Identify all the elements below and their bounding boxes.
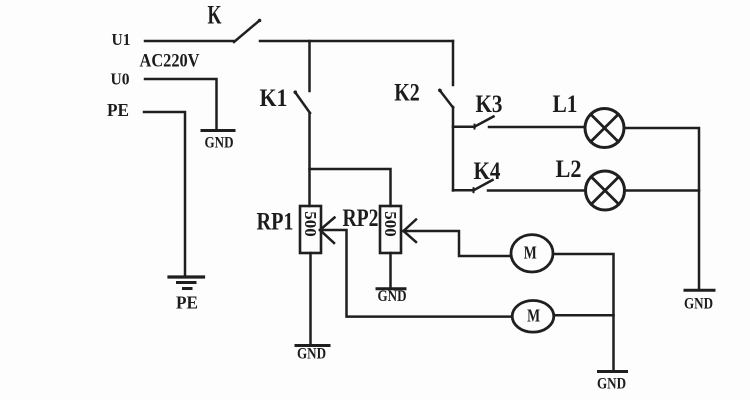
svg-text:GND: GND xyxy=(378,288,407,305)
svg-text:K3: K3 xyxy=(476,89,503,118)
label K3 xyxy=(476,89,503,118)
switch K4 xyxy=(453,180,493,192)
wiper arrow RP2 to motor M1 xyxy=(404,220,511,257)
label RP2 xyxy=(343,203,379,232)
wire M1 right xyxy=(553,254,614,371)
switch K xyxy=(234,19,261,42)
potentiometer RP2 xyxy=(380,206,401,253)
svg-text:M: M xyxy=(527,306,540,326)
wire branch to RP2 xyxy=(310,169,391,206)
wire PE xyxy=(144,112,185,276)
wire K1 branch drop xyxy=(308,41,311,91)
svg-text:RP2: RP2 xyxy=(343,203,379,232)
label K xyxy=(208,1,223,30)
svg-text:U1: U1 xyxy=(112,30,131,49)
label K4 xyxy=(474,156,501,185)
ground GND (U0) xyxy=(202,131,234,152)
svg-text:K1: K1 xyxy=(260,83,288,112)
ground GND (lamps) xyxy=(684,290,714,312)
wire L2 right xyxy=(625,189,700,192)
ground GND (motors) xyxy=(597,372,627,393)
svg-text:AC220V: AC220V xyxy=(140,51,200,72)
potentiometer RP1 xyxy=(300,206,321,253)
motor M1 xyxy=(511,235,553,272)
label L2 xyxy=(556,154,582,183)
svg-text:500: 500 xyxy=(301,211,320,237)
wire K2 branch drop xyxy=(452,41,455,85)
svg-text:K2: K2 xyxy=(394,78,420,107)
wiper arrow RP1 to motor M2 xyxy=(320,218,512,317)
lamp L1 xyxy=(585,109,624,148)
wire U0 neutral xyxy=(145,79,217,129)
switch K2 xyxy=(438,89,453,108)
wire RP2 to ground xyxy=(389,253,392,288)
ground GND (RP1) xyxy=(296,346,329,363)
label AC220V xyxy=(140,51,200,72)
wire K2 lower xyxy=(452,107,455,191)
svg-text:500: 500 xyxy=(381,211,400,237)
svg-text:RP1: RP1 xyxy=(257,207,294,236)
node U0 xyxy=(111,70,130,89)
ground GND (RP2) xyxy=(377,288,407,305)
label K2 xyxy=(394,78,420,107)
wire M2 right xyxy=(554,314,614,317)
motor M2 xyxy=(512,301,554,333)
label K1 xyxy=(260,83,288,112)
node U1 xyxy=(112,30,131,49)
lamp L2 xyxy=(586,171,625,210)
svg-text:K: K xyxy=(208,1,223,30)
svg-text:M: M xyxy=(524,243,537,263)
wire K1 to RP1 xyxy=(308,113,311,206)
svg-text:PE: PE xyxy=(107,100,129,120)
ground PE earth xyxy=(169,277,204,313)
node PE xyxy=(107,100,129,120)
svg-text:PE: PE xyxy=(176,293,198,313)
svg-text:L1: L1 xyxy=(553,89,578,118)
svg-text:GND: GND xyxy=(597,376,626,393)
svg-text:GND: GND xyxy=(684,296,713,313)
svg-text:GND: GND xyxy=(297,346,326,363)
label L1 xyxy=(553,89,578,118)
wire top bus after K xyxy=(260,40,453,43)
switch K1 xyxy=(294,91,311,114)
svg-text:U0: U0 xyxy=(111,70,130,89)
switch K3 xyxy=(453,117,494,129)
wire RP1 to ground xyxy=(309,253,312,344)
wire U1 phase input xyxy=(145,40,234,43)
wire K4 to L2 xyxy=(488,189,586,192)
wire K3 to L1 xyxy=(489,126,585,129)
svg-text:GND: GND xyxy=(205,135,234,152)
svg-text:L2: L2 xyxy=(556,154,582,183)
svg-text:K4: K4 xyxy=(474,156,501,185)
label RP1 xyxy=(257,207,294,236)
wire L1 right xyxy=(624,128,699,289)
